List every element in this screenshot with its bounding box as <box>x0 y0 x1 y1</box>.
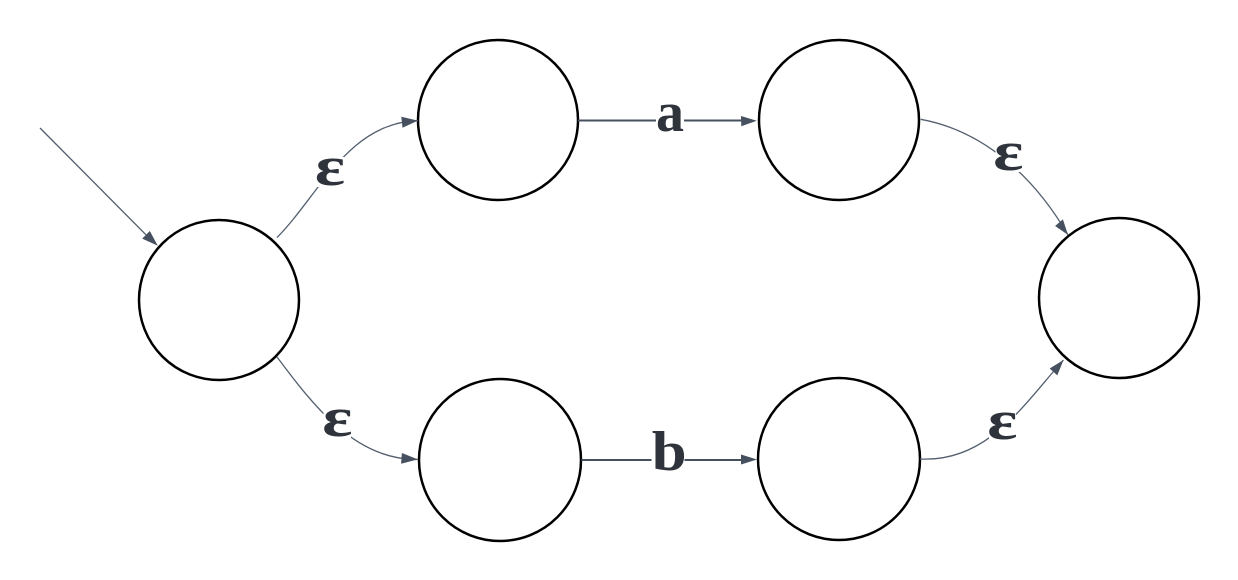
svg-text:ε: ε <box>987 389 1017 451</box>
svg-text:a: a <box>656 82 684 144</box>
svg-text:ε: ε <box>322 386 352 448</box>
svg-text:ε: ε <box>993 120 1023 182</box>
svg-text:b: b <box>652 420 687 482</box>
svg-text:ε: ε <box>315 135 345 197</box>
